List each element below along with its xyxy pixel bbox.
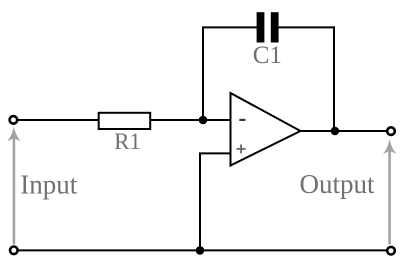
wire op-amp output	[301, 130, 388, 132]
op-amp U1	[231, 93, 301, 166]
wire noninverting input horizontal	[199, 152, 231, 154]
input arrow	[7, 126, 20, 244]
capacitor C1	[257, 12, 279, 42]
wire bottom rail	[19, 249, 387, 251]
node bottom right terminal	[387, 247, 395, 255]
wire C1 to feedback right vertical	[279, 26, 335, 28]
node junction bottom rail	[196, 246, 205, 255]
op-amp minus pin mark	[239, 119, 245, 121]
svg-text:Output: Output	[300, 169, 376, 199]
node junction at output	[331, 127, 340, 136]
svg-text:Input: Input	[20, 170, 77, 200]
node bottom left terminal	[10, 247, 18, 255]
output arrow	[383, 139, 396, 245]
wire input to R1	[18, 119, 100, 121]
wire noninverting input vertical	[199, 153, 201, 250]
svg-text:R1: R1	[114, 129, 141, 154]
wire feedback right vertical	[333, 26, 335, 131]
resistor R1	[99, 113, 151, 129]
node junction at inverting input	[199, 116, 208, 125]
wire R1 to op-amp inverting input	[150, 119, 231, 121]
node input terminal	[10, 116, 18, 124]
wire feedback top left to C1	[202, 26, 257, 28]
op-amp plus pin mark	[237, 144, 246, 153]
node output terminal	[387, 127, 395, 135]
svg-text:C1: C1	[253, 42, 282, 69]
wire feedback left vertical	[202, 27, 204, 120]
